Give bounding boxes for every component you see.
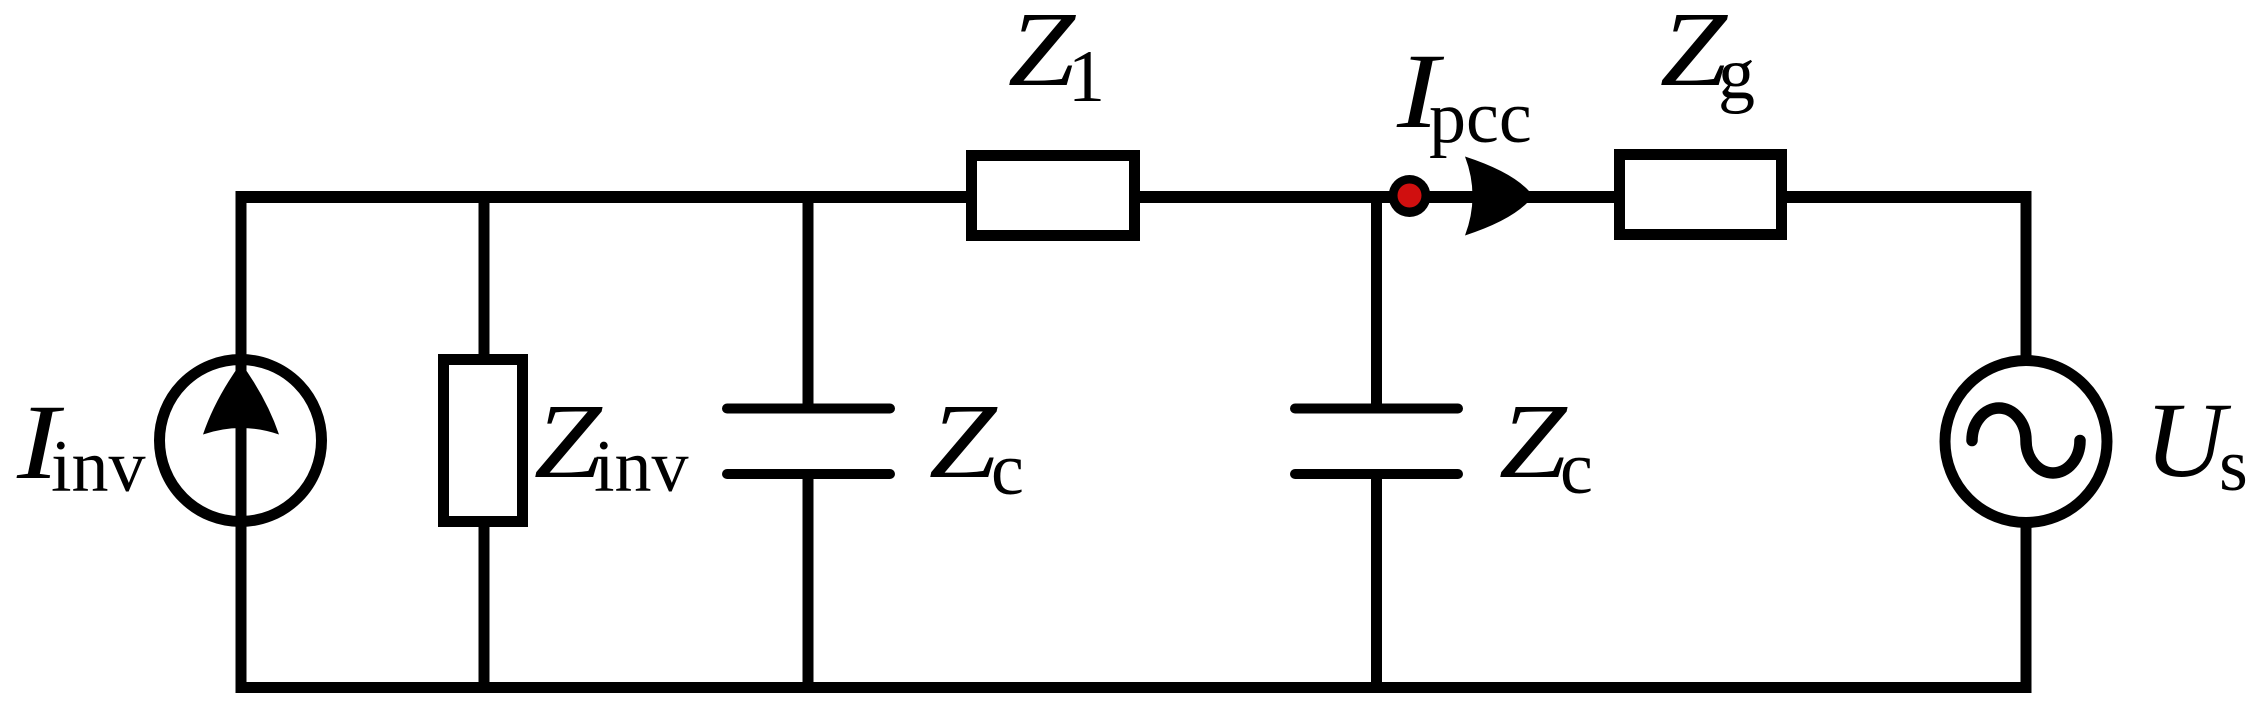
wire: capacitor2 branch upper	[1371, 197, 1382, 410]
capacitor Zc2 top plate	[1295, 404, 1458, 414]
capacitor Zc1 top plate	[727, 404, 890, 414]
label Zc (capacitor 2)	[1499, 382, 1568, 500]
svg-text:g: g	[1718, 33, 1755, 115]
wire: capacitor2 branch lower	[1371, 474, 1382, 688]
label Z1	[1008, 0, 1077, 108]
label Us	[2145, 381, 2232, 499]
node PCC junction dot	[1389, 175, 1431, 217]
AC voltage source Us circle	[1945, 361, 2107, 523]
capacitor Zc2 bottom plate	[1295, 469, 1458, 479]
label Ipcc	[1396, 33, 1445, 151]
wire: left vertical (Iinv branch, arrow shaft)	[236, 191, 247, 693]
impedance Zinv body	[444, 360, 523, 522]
wire: capacitor1 branch lower	[803, 474, 814, 688]
svg-text:s: s	[2219, 425, 2248, 507]
wire: right vertical (Us branch)	[2021, 191, 2032, 693]
svg-text:Z: Z	[1499, 382, 1568, 500]
svg-text:c: c	[991, 429, 1024, 511]
svg-text:inv: inv	[51, 426, 146, 508]
svg-text:Z: Z	[1008, 0, 1077, 108]
svg-text:c: c	[1560, 428, 1593, 510]
svg-text:inv: inv	[594, 426, 689, 508]
wire: Zinv branch vertical	[479, 197, 490, 688]
current source arrow	[203, 363, 279, 435]
AC source sine wave	[1972, 408, 2080, 473]
svg-text:Z: Z	[929, 382, 998, 500]
label Zg	[1660, 0, 1729, 108]
current source Iinv circle	[160, 360, 322, 522]
impedance Zg body	[1620, 155, 1782, 235]
label Zinv	[534, 382, 603, 500]
capacitor Zc1 bottom plate	[727, 469, 890, 479]
svg-text:1: 1	[1068, 36, 1105, 118]
svg-text:pcc: pcc	[1429, 77, 1532, 159]
wire: capacitor1 branch upper	[803, 197, 814, 410]
svg-text:Z: Z	[534, 382, 603, 500]
wire: bottom bus	[236, 682, 2032, 693]
wire: top bus	[236, 191, 2032, 203]
current direction arrow Ipcc	[1465, 157, 1533, 236]
label Zc (capacitor 1)	[929, 382, 998, 500]
label Iinv	[16, 384, 65, 502]
impedance Z1 body	[972, 156, 1135, 236]
